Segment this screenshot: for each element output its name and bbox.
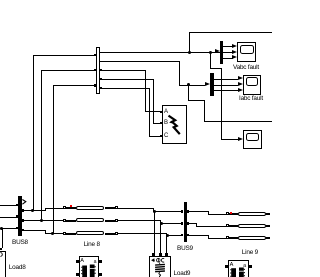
wire: phase A feeder from BUS8 up to top bus B bbox=[0, 0, 272, 1]
wire: Demux1 out 3 to Scope1 bbox=[0, 0, 272, 1]
bus BUS8 (black busbar) bbox=[0, 0, 272, 1]
node: branch of Vabc wire down to Scope3 bbox=[0, 0, 272, 1]
wire: phase A from bus B to fault block input A bbox=[0, 0, 272, 1]
scope Iabc fault (Scope2) bbox=[0, 0, 272, 1]
wire: phase C from bus B to fault block input C bbox=[0, 0, 272, 1]
wire: BUS8 to Line 8 phase C bbox=[0, 0, 272, 1]
wire: Demux1 out 1 to Scope1 bbox=[0, 0, 272, 1]
line Line 8 phase B segment bbox=[0, 0, 272, 1]
wire: Demux2 out 3 to Scope2 bbox=[0, 0, 272, 1]
wire: Line 8 to BUS9 phase B bbox=[0, 0, 272, 1]
load Load8 (partially off-page) bbox=[0, 0, 272, 1]
wire: Line 8 to BUS9 phase C bbox=[0, 0, 272, 1]
wire: tap down to Load9 phase C bbox=[0, 0, 272, 1]
wire: phase B from bus B to fault block input B bbox=[0, 0, 272, 1]
wire: tap down to Load9 phase B bbox=[0, 0, 272, 1]
wire: BUS8 phase A to off-page left bbox=[0, 0, 272, 1]
transformer T1 (bottom left, partially off-page) bbox=[0, 0, 272, 1]
fault block (Three-Phase Fault) bbox=[0, 0, 272, 1]
wire: Iabc measurement from bus B to Demux2 bbox=[0, 0, 272, 1]
wire: Vabc measurement from bus B to Demux1 bbox=[0, 0, 272, 1]
scope Vabc fault (Scope1) bbox=[0, 0, 272, 1]
label Line 8 bbox=[0, 0, 272, 1]
label Line 9 bbox=[0, 0, 272, 1]
demux Demux1 (Vabc) bbox=[0, 0, 272, 1]
scope Scope3 bbox=[0, 0, 272, 1]
bus B (three-phase measurement bus, top) bbox=[0, 0, 272, 1]
load Load9 (three-phase load) bbox=[0, 0, 272, 1]
wire: BUS9 to Line 9 phase B bbox=[0, 0, 272, 1]
wire: phase C feeder from BUS8 up to top bus B bbox=[0, 0, 272, 1]
line Line 9 phase B segment bbox=[0, 0, 272, 1]
wire: BUS8 phase C to off-page left and Load8 bbox=[0, 0, 272, 1]
node: branch of Iabc wire to off-page output bbox=[0, 0, 272, 1]
wire: Demux2 out 2 to Scope2 bbox=[0, 0, 272, 1]
wire: BUS9 to Line 9 phase A bbox=[0, 0, 272, 1]
line Line 8 phase A segment bbox=[0, 0, 272, 1]
wire: BUS8 to Line 8 phase A bbox=[0, 0, 272, 1]
node: branch of Vabc wire up to off-page output bbox=[0, 0, 272, 1]
wire: Demux1 out 2 to Scope1 bbox=[0, 0, 272, 1]
line Line 9 phase A segment bbox=[0, 0, 272, 1]
transformer T2 (bottom right, partially off-page) bbox=[0, 0, 272, 1]
wire: Line 8 to BUS9 phase A bbox=[0, 0, 272, 1]
wire: BUS8 phase B to off-page left bbox=[0, 0, 272, 1]
demux Demux2 (Iabc) bbox=[0, 0, 272, 1]
wire: tap down to Load9 phase A bbox=[0, 0, 272, 1]
bus BUS9 (black busbar) bbox=[0, 0, 272, 1]
line Line 9 phase C segment bbox=[0, 0, 272, 1]
line Line 8 phase C segment bbox=[0, 0, 272, 1]
wire: Demux2 out 1 to Scope2 bbox=[0, 0, 272, 1]
wire: BUS8 to Line 8 phase B bbox=[0, 0, 272, 1]
wire: phase B feeder from BUS8 up to top bus B bbox=[0, 0, 272, 1]
wire: BUS9 to Line 9 phase C bbox=[0, 0, 272, 1]
